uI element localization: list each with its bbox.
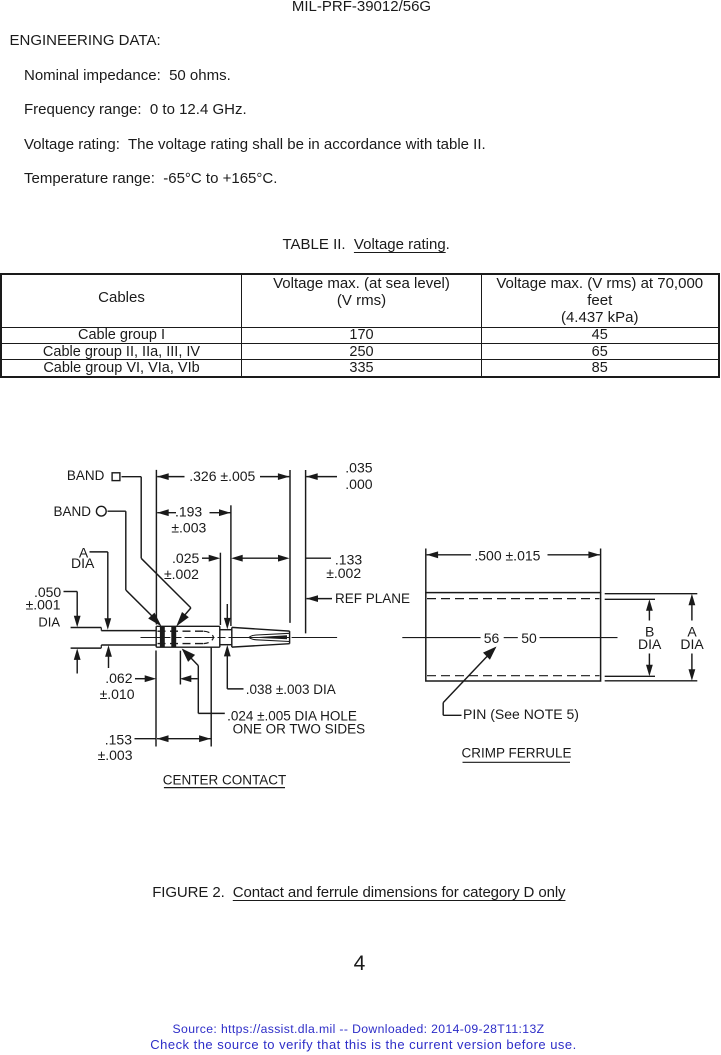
- internal bore (dashed hidden lines): [158, 631, 214, 643]
- dimension .062 ±.010: [100, 670, 198, 702]
- svg-text:BAND: BAND: [53, 504, 91, 519]
- dimension .035/.000 arrow: [306, 459, 373, 492]
- svg-text:REF PLANE: REF PLANE: [335, 591, 410, 606]
- A-dia bottom arrow: [105, 645, 112, 668]
- svg-text:±.001: ±.001: [26, 596, 61, 612]
- B DIA dimension arrows and label: [638, 599, 662, 676]
- extension line below body left (x=156): [155, 651, 157, 747]
- band 2 (solid marker band): [171, 626, 176, 647]
- svg-text:CENTER CONTACT: CENTER CONTACT: [163, 772, 287, 787]
- svg-text:.035: .035: [345, 459, 372, 475]
- BAND O label and leader: [53, 504, 161, 627]
- svg-text:.025: .025: [172, 550, 199, 566]
- A-dia extension lines (right): [605, 594, 698, 681]
- leader .024 ±.005 DIA HOLE: [182, 649, 365, 737]
- svg-text:.062: .062: [105, 670, 132, 686]
- REF PLANE line (x=305.6): [305, 470, 307, 633]
- svg-text:±.003: ±.003: [98, 747, 133, 763]
- contact wire-end section (.050 dia): [71, 628, 102, 649]
- svg-text:DIA: DIA: [38, 614, 60, 629]
- ferrule body outline: [426, 593, 601, 681]
- dimension .133 ±.002: [231, 552, 362, 582]
- svg-text:.153: .153: [105, 731, 132, 747]
- svg-text:±.002: ±.002: [164, 566, 199, 582]
- ferrule centerline: [402, 637, 617, 639]
- svg-text:.193: .193: [175, 503, 202, 519]
- extension line x=220 (.025): [219, 553, 221, 625]
- svg-text:.000: .000: [345, 476, 372, 492]
- centerline of center contact: [141, 637, 338, 639]
- contact main body: [156, 626, 220, 647]
- BAND square label and leader: [67, 468, 191, 627]
- extension line x=181 (.062 right): [179, 651, 181, 685]
- dimension .326 ±.005: [157, 468, 289, 484]
- svg-text:PIN (See NOTE 5): PIN (See NOTE 5): [463, 706, 579, 722]
- .050 ±.001 DIA label and arrows: [26, 584, 81, 674]
- svg-text:DIA: DIA: [638, 636, 662, 652]
- REF PLANE label: [307, 591, 411, 606]
- svg-text:±.003: ±.003: [171, 519, 206, 535]
- svg-text:.038 ±.003 DIA: .038 ±.003 DIA: [246, 682, 336, 697]
- svg-text:.326 ±.005: .326 ±.005: [189, 468, 255, 484]
- cone inner taper lines: [249, 633, 290, 641]
- ferrule inner dashed lines: [427, 599, 600, 676]
- PIN leader: [443, 647, 579, 722]
- svg-text:ONE OR TWO SIDES: ONE OR TWO SIDES: [233, 722, 366, 737]
- CRIMP FERRULE label: [461, 746, 571, 763]
- B-dia extension lines (right): [605, 599, 655, 676]
- svg-text:DIA: DIA: [680, 636, 704, 652]
- dimension .153 ±.003: [98, 731, 211, 763]
- label 56: [484, 630, 500, 646]
- svg-text:.500 ±.015: .500 ±.015: [474, 548, 540, 564]
- cone tip of contact: [232, 627, 290, 647]
- neck section (.038 dia): [220, 630, 232, 645]
- svg-text:CRIMP FERRULE: CRIMP FERRULE: [461, 746, 571, 761]
- contact A-dia section: [101, 631, 156, 645]
- A DIA dimension arrows and label: [680, 594, 704, 681]
- extension line x=211 (.153 right): [210, 648, 212, 747]
- extension line from body left shoulder (x=156): [155, 470, 157, 625]
- svg-text:±.010: ±.010: [100, 686, 135, 702]
- A DIA label and arrow: [71, 544, 111, 630]
- svg-text:50: 50: [521, 630, 537, 646]
- extension line at contact tip (x=290): [289, 470, 291, 623]
- svg-text:56: 56: [484, 630, 500, 646]
- band 1 (solid marker band): [160, 626, 165, 647]
- dimension .038 ±.003 DIA: [224, 604, 336, 697]
- ferrule extension lines up: [426, 549, 601, 593]
- dimension .193 ±.003: [157, 503, 230, 535]
- svg-text:DIA: DIA: [71, 555, 95, 571]
- svg-text:±.002: ±.002: [326, 565, 361, 581]
- extension line x=231 (.193/.133): [230, 505, 232, 626]
- label 50: [521, 630, 537, 646]
- dimension .500 ±.015: [427, 548, 600, 564]
- CENTER CONTACT label: [163, 772, 287, 787]
- svg-text:BAND: BAND: [67, 468, 105, 483]
- dimension .025 ±.002: [164, 550, 220, 582]
